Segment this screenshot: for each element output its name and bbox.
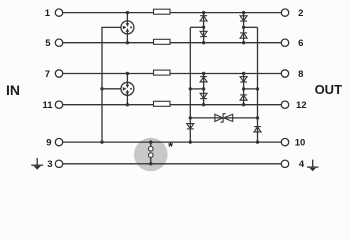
svg-text:10: 10 <box>295 138 306 149</box>
wire row2 right (resistor R2 to terminal 6) <box>170 42 281 44</box>
wire D9 to row5 <box>189 129 191 142</box>
label OUT <box>315 82 343 97</box>
terminal 5 <box>55 39 62 46</box>
terminal 9 <box>55 138 62 145</box>
diode D2 (cathode down, rows1-2 left column bottom) <box>200 31 207 36</box>
diode D5 (cathode up, rows3-4 left column top) <box>200 77 207 82</box>
node tap34 right <box>242 87 245 90</box>
wire row6 (terminal 3 to terminal 4) <box>63 163 282 165</box>
wire row1 right (resistor R1 to terminal 2) <box>170 12 281 14</box>
node row1/colA <box>202 11 205 14</box>
wire row4 left (terminal 11 to resistor R4) <box>63 104 154 106</box>
node row5/right rail <box>256 140 259 143</box>
svg-text:6: 6 <box>298 38 303 49</box>
node tap12 left <box>202 26 205 29</box>
diode D4 (cathode up, rows1-2 right column bottom) <box>240 33 247 38</box>
svg-text:2: 2 <box>298 8 303 19</box>
terminal 4 <box>281 160 288 167</box>
gas discharge tube F1 (rows 1-2) <box>121 13 134 43</box>
wire row3 left (terminal 7 to resistor R3) <box>63 73 154 75</box>
node tap12 right <box>242 26 245 29</box>
wire GDT2 electrode to rail <box>102 88 120 90</box>
bidirectional suppressor diode D11 <box>215 114 233 122</box>
terminal 12 <box>281 101 288 108</box>
diode D9 (left rail to row5, cathode down) <box>187 124 194 129</box>
node row3/GDT2 <box>126 72 129 75</box>
wire tap rows3-4 right to rail <box>244 88 258 90</box>
spark gap F3 (row5 to row6) <box>149 142 154 164</box>
ground symbol right <box>307 160 318 172</box>
svg-text:*: * <box>168 139 174 154</box>
node row1/GDT1 <box>126 11 129 14</box>
node right rail/TVS <box>256 116 259 119</box>
diode D6 (cathode down, rows3-4 left column bottom) <box>200 93 207 98</box>
diode D1 (cathode up, rows1-2 left column top) <box>200 16 207 21</box>
svg-text:5: 5 <box>45 38 51 49</box>
terminal 6 <box>281 39 288 46</box>
resistor R3 <box>154 70 171 75</box>
node row5/GDT rail <box>100 140 103 143</box>
wire TVS crossbar <box>190 117 257 119</box>
resistor R4 <box>154 101 171 106</box>
node row4/colB <box>242 103 245 106</box>
diode D10 (right rail to row5, cathode up) <box>254 127 261 132</box>
svg-text:3: 3 <box>47 159 52 170</box>
wire right reference rail <box>257 27 259 132</box>
svg-text:1: 1 <box>45 8 51 19</box>
wire row5 (terminal 9 to terminal 10) <box>63 141 282 143</box>
node row5/spark gap <box>149 140 152 143</box>
wire row1 left (terminal 1 to resistor R1) <box>63 12 154 14</box>
node row4/GDT2 <box>126 103 129 106</box>
resistor R2 <box>154 39 171 44</box>
wire tap rows1-2 left to rail <box>190 26 203 28</box>
resistor R1 <box>154 9 171 14</box>
label asterisk <box>168 139 174 154</box>
wire diode column B rows3-4 <box>243 74 245 105</box>
wire diode column B rows1-2 <box>243 13 245 43</box>
wire tap rows1-2 right to rail <box>244 26 258 28</box>
svg-text:12: 12 <box>296 100 307 111</box>
node tap34 left <box>202 87 205 90</box>
node left rail/TVS <box>189 116 192 119</box>
svg-text:9: 9 <box>46 138 51 149</box>
diode D3 (cathode down, rows1-2 right column top) <box>240 16 247 21</box>
pin labels right <box>295 8 307 170</box>
wire row3 right (resistor R3 to terminal 8) <box>170 73 281 75</box>
svg-text:7: 7 <box>45 69 50 80</box>
highlight circle (gray) <box>134 138 168 172</box>
ground symbol left <box>31 158 43 170</box>
node row2/colB <box>242 41 245 44</box>
svg-text:4: 4 <box>299 159 305 170</box>
terminal 11 <box>55 101 62 108</box>
wire diode column A rows1-2 <box>203 13 205 43</box>
gas discharge tube F2 (rows 3-4) <box>121 74 134 105</box>
node right rail/tap34 <box>256 87 259 90</box>
wire left reference rail <box>189 27 191 129</box>
node row5/left rail <box>189 140 192 143</box>
terminal 7 <box>55 70 62 77</box>
node row3/colB <box>242 72 245 75</box>
terminal 8 <box>281 70 288 77</box>
node row2/colA <box>202 41 205 44</box>
node row3/colA <box>202 72 205 75</box>
wire tap rows3-4 left to rail <box>190 88 203 90</box>
wire row4 right (resistor R4 to terminal 12) <box>170 104 281 106</box>
svg-text:11: 11 <box>42 100 53 111</box>
terminal 1 <box>55 9 62 16</box>
svg-text:OUT: OUT <box>315 82 343 97</box>
terminal 2 <box>281 9 288 16</box>
terminal 10 <box>281 138 288 145</box>
node left rail/tap34 <box>189 87 192 90</box>
svg-text:8: 8 <box>298 69 303 80</box>
wire GDT common rail (x=102, down to row5) <box>102 27 121 142</box>
label IN <box>6 82 20 98</box>
terminal 3 <box>55 160 62 167</box>
node GDT rail/electrode2 <box>100 87 103 90</box>
pin labels left <box>42 8 53 170</box>
node row1/colB <box>242 11 245 14</box>
diode D7 (cathode down, rows3-4 right column top) <box>240 77 247 82</box>
node row6/spark gap <box>149 162 152 165</box>
wire diode column A rows3-4 <box>203 74 205 105</box>
node row2/GDT1 <box>126 41 129 44</box>
wire D10 to row5 <box>257 132 259 142</box>
diode D8 (cathode up, rows3-4 right column bottom) <box>240 95 247 100</box>
node row4/colA <box>202 103 205 106</box>
wire row2 left (terminal 5 to resistor R2) <box>63 42 154 44</box>
svg-text:IN: IN <box>6 82 20 98</box>
